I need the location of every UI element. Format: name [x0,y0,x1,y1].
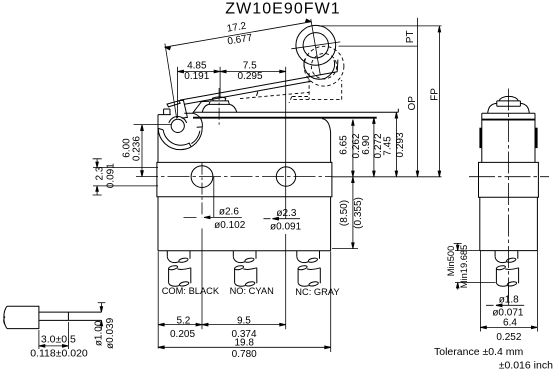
PT OP FP dimension lines [318,18,442,177]
svg-text:ø0.039: ø0.039 [105,317,116,349]
dimension 6.00 / 0.236 [134,125,172,177]
svg-text:ø2.3: ø2.3 [276,208,296,219]
label dia 1.8 / 0.071 [486,285,524,307]
wire conductor [39,312,102,320]
switch body upper section [158,115,331,163]
svg-text:2.3: 2.3 [94,166,105,180]
dimension 3.0±0.5 / 0.118±0.020 [39,322,69,349]
hole 1 center line vertical [201,163,203,217]
lever arm [180,72,337,105]
body band with holes [157,162,332,196]
svg-text:9.5: 9.5 [237,315,251,326]
dimension dia 1.00 / 0.039 [98,303,106,331]
nub on hinge block [164,109,170,115]
svg-text:ø2.6: ø2.6 [219,206,239,217]
plunger dome [202,97,237,112]
dimension 6.4 / 0.252 [480,251,537,332]
side mounting tabs [479,128,482,148]
svg-text:6.4: 6.4 [503,317,517,328]
dimensions 6.65 6.90 7.45 right side [332,112,442,248]
hinge pivot circle [171,119,184,132]
svg-text:FP: FP [430,88,441,101]
actuator plate bottom thick line [193,117,377,119]
bottom dimensions 5.2 9.5 19.8 [158,252,331,353]
dimension 17.2 / 0.677 [165,19,312,118]
side roller cylinder [497,101,521,106]
svg-text:ZW10E90FW1: ZW10E90FW1 [225,0,340,17]
svg-text:Min500: Min500 [446,246,456,277]
svg-text:ø0.102: ø0.102 [214,220,246,231]
svg-text:ø1.00: ø1.00 [94,320,105,346]
dimension 2.3 / 0.091 [93,159,158,195]
side center lines [508,89,510,299]
dashed roller pressed position [240,46,344,103]
mounting hole 1 [191,166,213,188]
lever clamp piece [178,100,188,118]
svg-text:3.0±0.5: 3.0±0.5 [41,334,76,346]
plunger center line [218,88,220,125]
roller pin circle [304,59,335,79]
roller inner circle [303,33,328,58]
svg-text:Tolerance ±0.4 mm: Tolerance ±0.4 mm [434,346,523,358]
svg-text:0.252: 0.252 [496,332,521,343]
svg-text:0.293: 0.293 [395,132,406,157]
svg-text:7.5: 7.5 [243,61,257,72]
hinge collar arc [169,117,187,123]
fan sector inner arcs and notch [158,127,202,146]
wire insulation [4,306,39,328]
svg-text:0.295: 0.295 [237,71,262,82]
body lower section [158,197,331,251]
side roller cap [499,96,518,101]
svg-text:NC: GRAY: NC: GRAY [295,287,339,297]
svg-text:6.65: 6.65 [339,135,350,155]
roller outer circle [296,25,336,65]
label dia 2.6 / 0.102 [184,177,242,219]
roller bracket right edge [336,60,339,72]
svg-text:0.780: 0.780 [232,349,257,360]
terminal NO [233,251,257,287]
shoulder left of plunger [184,101,209,113]
side band [479,162,539,197]
side lower body [480,197,538,250]
mounting hole 2 [276,167,295,186]
actuator plate top line [193,109,398,113]
svg-text:0.191: 0.191 [184,71,209,82]
svg-text:19.8: 19.8 [234,337,254,348]
svg-text:(0.355): (0.355) [353,197,364,229]
svg-text:ø1.8: ø1.8 [499,294,519,305]
svg-text:ø0.091: ø0.091 [270,222,302,233]
svg-text:0.118±0.020: 0.118±0.020 [30,348,88,360]
svg-text:PT: PT [405,30,416,43]
svg-text:(8.50): (8.50) [339,200,350,226]
svg-text:0.205: 0.205 [170,329,195,340]
svg-text:6.90: 6.90 [361,135,372,155]
label dia 2.3 / 0.091 [264,217,301,220]
side bell [488,103,530,113]
svg-text:4.85: 4.85 [187,61,207,72]
dimension Min500 / Min19.685 [454,243,496,289]
svg-text:5.2: 5.2 [176,315,190,326]
terminal COM [167,251,191,287]
holes center line [136,176,332,178]
svg-text:7.45: 7.45 [383,136,394,156]
roller crosshair [291,19,340,75]
svg-text:0.236: 0.236 [132,136,143,161]
svg-text:6.00: 6.00 [121,138,132,158]
svg-text:COM: BLACK: COM: BLACK [162,286,220,296]
svg-text:±0.016 inch: ±0.016 inch [499,360,553,372]
svg-text:Min19.685: Min19.685 [459,245,469,288]
lever tip parallelogram [167,101,180,107]
side terminal [495,251,519,287]
svg-text:NO: CYAN: NO: CYAN [230,286,274,296]
svg-text:OP: OP [407,96,418,111]
fan sector outer arc [158,127,202,150]
dimension 4.85 / 7.5 [178,67,286,219]
svg-text:0.091: 0.091 [105,163,116,188]
lever joint notch [257,92,258,96]
side head block [482,113,535,162]
terminal NC [297,251,321,287]
